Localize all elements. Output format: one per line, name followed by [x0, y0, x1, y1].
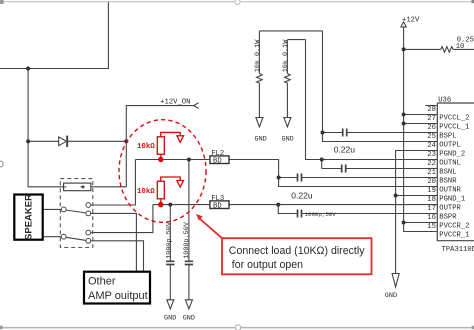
- svg-text:U36: U36: [438, 97, 451, 105]
- svg-text:10: 10: [456, 43, 465, 51]
- svg-text:+12V_ON: +12V_ON: [160, 98, 190, 106]
- svg-text:SPEAKER: SPEAKER: [24, 194, 35, 240]
- svg-text:19: 19: [427, 187, 436, 195]
- svg-text:TPA3110D2D: TPA3110D2D: [442, 246, 474, 254]
- svg-text:0.22u: 0.22u: [334, 144, 356, 154]
- svg-text:BD: BD: [213, 157, 222, 165]
- svg-text:25: 25: [427, 133, 436, 141]
- svg-text:26: 26: [427, 124, 436, 132]
- svg-text:20: 20: [427, 178, 436, 186]
- svg-text:15: 15: [427, 223, 436, 231]
- svg-text:24: 24: [427, 142, 436, 150]
- svg-text:21: 21: [427, 169, 436, 177]
- svg-text:GND: GND: [164, 315, 176, 323]
- svg-text:PVCCL_2: PVCCL_2: [439, 114, 469, 122]
- svg-text:GND: GND: [385, 292, 397, 300]
- svg-text:10k 0.1W: 10k 0.1W: [254, 39, 262, 73]
- svg-text:BSNL: BSNL: [439, 168, 456, 176]
- svg-text:1000p.50V: 1000p.50V: [166, 221, 174, 259]
- svg-text:PVCCR_2: PVCCR_2: [439, 222, 469, 230]
- svg-text:23: 23: [427, 151, 436, 159]
- svg-text:PGND_2: PGND_2: [439, 150, 465, 158]
- svg-text:28: 28: [427, 106, 436, 114]
- svg-text:Other: Other: [88, 276, 116, 288]
- svg-text:Connect load (10KΩ) directly: Connect load (10KΩ) directly: [229, 245, 365, 257]
- svg-text:27: 27: [427, 115, 436, 123]
- svg-text:10k 0.1W: 10k 0.1W: [282, 39, 290, 73]
- svg-text:10kΩ: 10kΩ: [137, 143, 155, 151]
- svg-text:OUTNR: OUTNR: [439, 186, 461, 194]
- svg-text:PGND_1: PGND_1: [439, 195, 465, 203]
- svg-text:GND: GND: [183, 315, 195, 323]
- svg-text:17: 17: [427, 205, 436, 213]
- svg-text:AMP ouitput: AMP ouitput: [88, 290, 148, 302]
- svg-text:GND: GND: [255, 135, 267, 143]
- svg-text:for output open: for output open: [232, 259, 303, 271]
- svg-text:OUTNL: OUTNL: [439, 159, 461, 167]
- svg-text:PVCCL_1: PVCCL_1: [439, 123, 469, 131]
- svg-text:18: 18: [427, 196, 436, 204]
- svg-text:10kΩ: 10kΩ: [137, 188, 155, 196]
- svg-text:BSNR: BSNR: [439, 177, 457, 185]
- svg-text:1000p.50V: 1000p.50V: [183, 221, 191, 259]
- svg-text:1000p,50V: 1000p,50V: [305, 211, 337, 218]
- svg-text:22: 22: [427, 160, 436, 168]
- svg-text:OUTPL: OUTPL: [439, 141, 461, 149]
- svg-text:OUTPR: OUTPR: [439, 204, 461, 212]
- svg-text:0.22u: 0.22u: [291, 190, 313, 200]
- svg-text:BSPR: BSPR: [439, 213, 457, 221]
- svg-text:16: 16: [427, 214, 436, 222]
- svg-text:+12V: +12V: [402, 16, 420, 24]
- svg-text:GND: GND: [282, 135, 294, 143]
- svg-text:BSPL: BSPL: [439, 132, 456, 140]
- svg-text:PVCCR_1: PVCCR_1: [439, 231, 469, 239]
- svg-text:BD: BD: [213, 202, 222, 210]
